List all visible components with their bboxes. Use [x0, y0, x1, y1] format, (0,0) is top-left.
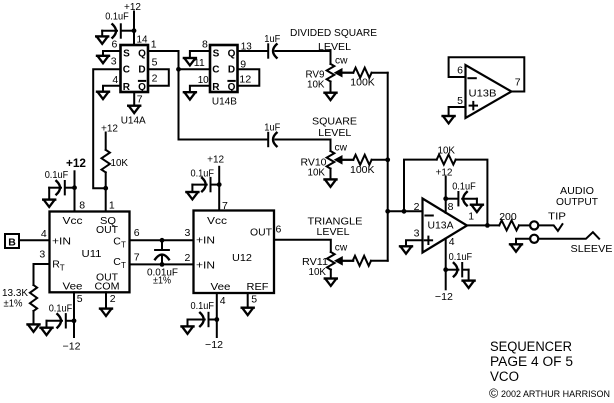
ground — [325, 93, 337, 100]
svg-text:4: 4 — [112, 74, 118, 86]
svg-text:7: 7 — [137, 94, 143, 106]
svg-text:T: T — [121, 241, 126, 250]
resistor 100K (divided square) — [342, 68, 388, 89]
svg-text:C: C — [113, 256, 121, 268]
capacitor 0.1uF (U12 Vcc bypass) — [191, 167, 220, 191]
wire to U14B pin 11 C — [179, 68, 211, 70]
svg-text:3: 3 — [184, 227, 190, 239]
jack TIP terminal — [530, 211, 566, 231]
power +12 (U12 supply) — [207, 153, 224, 210]
wire U13B pin 5 to ground — [449, 107, 466, 116]
input node B — [5, 234, 50, 248]
wire square level row — [179, 139, 268, 141]
svg-text:5: 5 — [152, 57, 158, 69]
svg-text:+12: +12 — [66, 158, 86, 170]
svg-text:10K: 10K — [111, 157, 129, 169]
ground — [400, 246, 412, 253]
capacitor 1uF (square) — [264, 121, 330, 146]
RV10 ground stub — [330, 169, 332, 179]
svg-text:2: 2 — [414, 201, 420, 213]
svg-text:+12: +12 — [101, 123, 118, 135]
svg-text:4: 4 — [41, 228, 47, 240]
svg-text:T: T — [60, 264, 65, 273]
svg-text:2: 2 — [184, 252, 190, 264]
ground — [510, 244, 522, 251]
wire U11 pin 2 OUT COM — [105, 292, 107, 308]
potentiometer RV9 10K body — [306, 55, 348, 91]
ground — [184, 58, 196, 65]
wire U14B pin 13 Q output — [238, 50, 268, 52]
flip-flop U14B — [194, 39, 252, 108]
label copyright — [489, 387, 610, 401]
svg-text:2002 ARTHUR HARRISON: 2002 ARTHUR HARRISON — [501, 389, 610, 399]
potentiometer RV11 10K body — [302, 242, 348, 278]
RV10 wiper — [334, 155, 353, 165]
wire U11 pin 5 Vee to -12 — [63, 292, 81, 352]
capacitor 0.1uF (U14A bypass) — [102, 11, 134, 38]
svg-text:3: 3 — [111, 56, 117, 68]
pin 8 S ground stub — [190, 51, 210, 58]
svg-text:3: 3 — [39, 249, 45, 261]
svg-text:2: 2 — [152, 73, 158, 85]
svg-text:REF: REF — [247, 281, 269, 293]
svg-text:1uF: 1uF — [264, 33, 280, 45]
RV9 ground stub — [330, 82, 332, 93]
RV9 wiper — [334, 68, 353, 78]
power +12 (U13A V+) — [436, 167, 453, 213]
svg-text:+IN: +IN — [196, 259, 215, 271]
svg-text:5: 5 — [251, 293, 257, 305]
wire 10K to U11 pin 1 — [105, 188, 107, 211]
ground — [325, 179, 337, 186]
junction — [443, 196, 448, 201]
svg-text:Vcc: Vcc — [207, 215, 227, 227]
label SQUARE LEVEL — [312, 116, 357, 140]
svg-text:4: 4 — [220, 295, 226, 307]
capacitor 0.1uF (U11 Vee bypass) — [47, 303, 75, 328]
svg-text:−12: −12 — [63, 341, 81, 353]
label TRIANGLE LEVEL — [308, 216, 363, 239]
svg-text:3: 3 — [414, 227, 420, 239]
junction — [217, 182, 222, 187]
svg-text:B: B — [8, 236, 16, 248]
svg-text:U13A: U13A — [428, 220, 454, 232]
svg-text:C: C — [113, 236, 121, 248]
svg-text:SEQUENCER: SEQUENCER — [490, 339, 572, 354]
svg-text:0.1uF: 0.1uF — [449, 251, 473, 263]
svg-text:Q: Q — [138, 82, 146, 93]
ground — [184, 92, 196, 99]
power +12 (timing pull-up) — [101, 123, 118, 150]
svg-text:100K: 100K — [350, 164, 375, 176]
wire sleeve to ground — [516, 239, 530, 244]
svg-text:SQUARE: SQUARE — [312, 116, 357, 128]
svg-text:S: S — [213, 48, 220, 59]
svg-text:+IN: +IN — [52, 236, 71, 248]
svg-text:C: C — [212, 65, 219, 76]
svg-text:Vee: Vee — [63, 280, 83, 292]
pin 7 ground stub — [133, 92, 135, 105]
junction — [443, 267, 448, 272]
pin 10 R ground stub — [190, 86, 210, 92]
capacitor 0.1uF (U13A V+ bypass) — [446, 180, 477, 205]
svg-text:VCO: VCO — [490, 369, 519, 384]
svg-text:10K: 10K — [308, 167, 326, 179]
svg-text:1: 1 — [151, 39, 157, 51]
svg-text:0.1uF: 0.1uF — [49, 303, 72, 315]
svg-text:7: 7 — [515, 77, 521, 89]
svg-text:cw: cw — [335, 55, 348, 67]
svg-text:6: 6 — [134, 227, 140, 239]
IC U12 — [184, 200, 281, 307]
svg-text:±1%: ±1% — [4, 298, 23, 310]
jack SLEEVE terminal — [530, 232, 612, 255]
op-amp U13B — [457, 65, 521, 118]
ground — [128, 106, 140, 113]
label PAGE 4 OF 5 — [490, 354, 573, 369]
svg-text:Q: Q — [138, 48, 146, 59]
capacitor 0.01uF 1% (timing) — [130, 238, 194, 287]
svg-text:OUT: OUT — [96, 224, 119, 236]
wire U14A pin 3 C to U11 pin 1 node — [93, 69, 120, 188]
label AUDIO OUTPUT — [556, 185, 599, 208]
label DIVIDED SQUARE LEVEL — [290, 27, 377, 53]
svg-text:100K: 100K — [350, 77, 375, 89]
svg-text:Q: Q — [228, 48, 236, 59]
junction — [385, 209, 390, 214]
ground — [463, 281, 475, 288]
junction — [385, 157, 390, 162]
svg-text:7: 7 — [222, 200, 228, 212]
svg-text:Vcc: Vcc — [63, 215, 83, 227]
svg-text:cw: cw — [335, 142, 348, 154]
label VCO — [490, 369, 519, 384]
svg-text:PAGE 4 OF 5: PAGE 4 OF 5 — [490, 354, 573, 369]
wire U13A output — [467, 224, 499, 226]
flip-flop U14A — [111, 34, 158, 127]
svg-text:R: R — [123, 82, 131, 93]
svg-text:U12: U12 — [232, 252, 252, 264]
ground — [96, 36, 108, 43]
ground — [443, 116, 455, 123]
wire summing bus — [387, 73, 389, 261]
svg-text:6: 6 — [457, 65, 463, 77]
resistor 100K (square) — [342, 155, 388, 176]
svg-text:+12: +12 — [436, 167, 453, 179]
svg-text:C: C — [123, 65, 130, 76]
pin 6 S ground stub — [103, 51, 121, 55]
ground — [97, 56, 109, 63]
svg-text:5: 5 — [457, 95, 463, 107]
svg-text:1: 1 — [109, 200, 115, 212]
wire to RV10 top — [330, 140, 332, 152]
ground — [182, 326, 194, 333]
wire U12 pin 4 Vee to -12 — [205, 293, 223, 351]
svg-text:Vee: Vee — [211, 281, 231, 293]
svg-text:+12: +12 — [207, 153, 224, 165]
svg-text:0.1uF: 0.1uF — [452, 180, 476, 192]
svg-text:6: 6 — [276, 223, 282, 235]
RV11 wiper — [334, 256, 353, 266]
svg-text:5: 5 — [77, 293, 83, 305]
capacitor 1uF (divided square) — [264, 33, 330, 58]
pin 4 R ground stub — [103, 86, 121, 92]
wire U13A pin 3 ground — [406, 240, 423, 246]
svg-text:6: 6 — [112, 39, 118, 51]
wire U14A pin 5 D to pin 2 Qbar loop — [148, 69, 169, 85]
junction — [214, 317, 219, 322]
resistor (triangle summing) — [342, 256, 387, 266]
svg-text:U13B: U13B — [469, 88, 497, 100]
label SEQUENCER — [490, 339, 572, 354]
power +12 (U14A supply) — [124, 1, 141, 45]
ground — [43, 200, 55, 207]
svg-text:0.1uF: 0.1uF — [45, 169, 68, 181]
junction — [72, 185, 77, 190]
svg-text:±1%: ±1% — [153, 275, 171, 287]
resistor 10K (pull-up) — [102, 150, 129, 188]
svg-text:LEVEL: LEVEL — [318, 41, 351, 53]
svg-text:1: 1 — [468, 210, 474, 222]
svg-text:D: D — [138, 65, 145, 76]
wire summing node to U13A pin 2 — [388, 210, 423, 212]
wire U14B pin 9 D to pin 12 Qbar loop — [238, 69, 260, 85]
svg-text:10K: 10K — [309, 266, 327, 278]
power -12 (U13A V-) — [435, 239, 453, 304]
svg-text:U14B: U14B — [212, 95, 237, 107]
capacitor 0.1uF (U12 Vee bypass) — [188, 300, 217, 326]
resistor 200 (output) — [499, 211, 530, 230]
svg-text:R: R — [212, 82, 220, 93]
svg-text:0.1uF: 0.1uF — [191, 300, 215, 312]
svg-text:LEVEL: LEVEL — [318, 127, 351, 139]
svg-text:U14A: U14A — [121, 114, 146, 126]
ground — [97, 92, 109, 99]
svg-text:1uF: 1uF — [264, 121, 280, 133]
svg-text:©: © — [489, 387, 499, 401]
svg-text:2: 2 — [110, 293, 116, 305]
svg-text:0.1uF: 0.1uF — [105, 11, 129, 23]
ground — [186, 192, 198, 199]
wire U11 pin 3 RT — [34, 264, 50, 285]
RV11 ground stub — [330, 270, 332, 278]
svg-text:OUT: OUT — [250, 227, 273, 239]
junction — [402, 209, 407, 214]
svg-text:U11: U11 — [82, 248, 102, 260]
junction — [72, 318, 77, 323]
capacitor 0.1uF (U13A V- bypass) — [446, 251, 472, 280]
junction — [103, 186, 108, 191]
wire to RV9 top — [330, 50, 332, 64]
svg-text:TIP: TIP — [548, 211, 566, 223]
svg-text:10K: 10K — [307, 79, 325, 91]
capacitor 0.1uF (U11 Vcc bypass) — [45, 169, 75, 199]
svg-text:7: 7 — [134, 252, 140, 264]
svg-text:+IN: +IN — [196, 235, 215, 247]
junction — [485, 223, 490, 228]
svg-text:DIVIDED SQUARE: DIVIDED SQUARE — [290, 27, 377, 39]
svg-text:10K: 10K — [438, 145, 456, 157]
node U14A Q / U14B clock — [176, 67, 181, 72]
potentiometer RV10 10K body — [301, 142, 348, 179]
svg-text:4: 4 — [449, 236, 455, 248]
wire U12 pin 6 OUT to RV11 — [274, 240, 331, 252]
wire U12 pin 5 REF — [247, 293, 249, 307]
ground — [41, 328, 53, 335]
ground — [28, 324, 40, 331]
resistor 13.3K 1% — [2, 285, 37, 324]
ground — [471, 205, 483, 212]
svg-text:8: 8 — [448, 201, 454, 213]
svg-text:14: 14 — [137, 34, 148, 46]
svg-text:SLEEVE: SLEEVE — [571, 243, 613, 255]
svg-text:200: 200 — [499, 211, 517, 223]
svg-text:OUTPUT: OUTPUT — [556, 196, 599, 208]
svg-text:LEVEL: LEVEL — [317, 226, 350, 238]
svg-text:−12: −12 — [205, 339, 223, 351]
wire U13B feedback loop — [449, 57, 525, 91]
ground — [242, 308, 254, 315]
svg-text:10: 10 — [198, 74, 209, 86]
svg-text:8: 8 — [202, 39, 208, 51]
svg-text:S: S — [123, 48, 130, 59]
power +12 (U11 supply) — [66, 158, 86, 212]
ground — [100, 309, 112, 316]
svg-text:8: 8 — [79, 200, 85, 212]
svg-text:COM: COM — [95, 280, 120, 292]
resistor 10K (feedback) — [404, 145, 487, 226]
junction — [132, 28, 137, 33]
svg-text:12: 12 — [239, 74, 251, 86]
svg-text:Q: Q — [228, 82, 236, 93]
svg-text:cw: cw — [335, 242, 348, 254]
ground — [325, 279, 337, 286]
svg-text:−12: −12 — [435, 291, 453, 303]
svg-text:D: D — [228, 65, 235, 76]
IC U11 — [39, 200, 139, 306]
svg-text:T: T — [121, 261, 126, 270]
wire U14A pin 1 Q down to square level row — [148, 51, 179, 140]
op-amp U13A — [414, 199, 475, 253]
